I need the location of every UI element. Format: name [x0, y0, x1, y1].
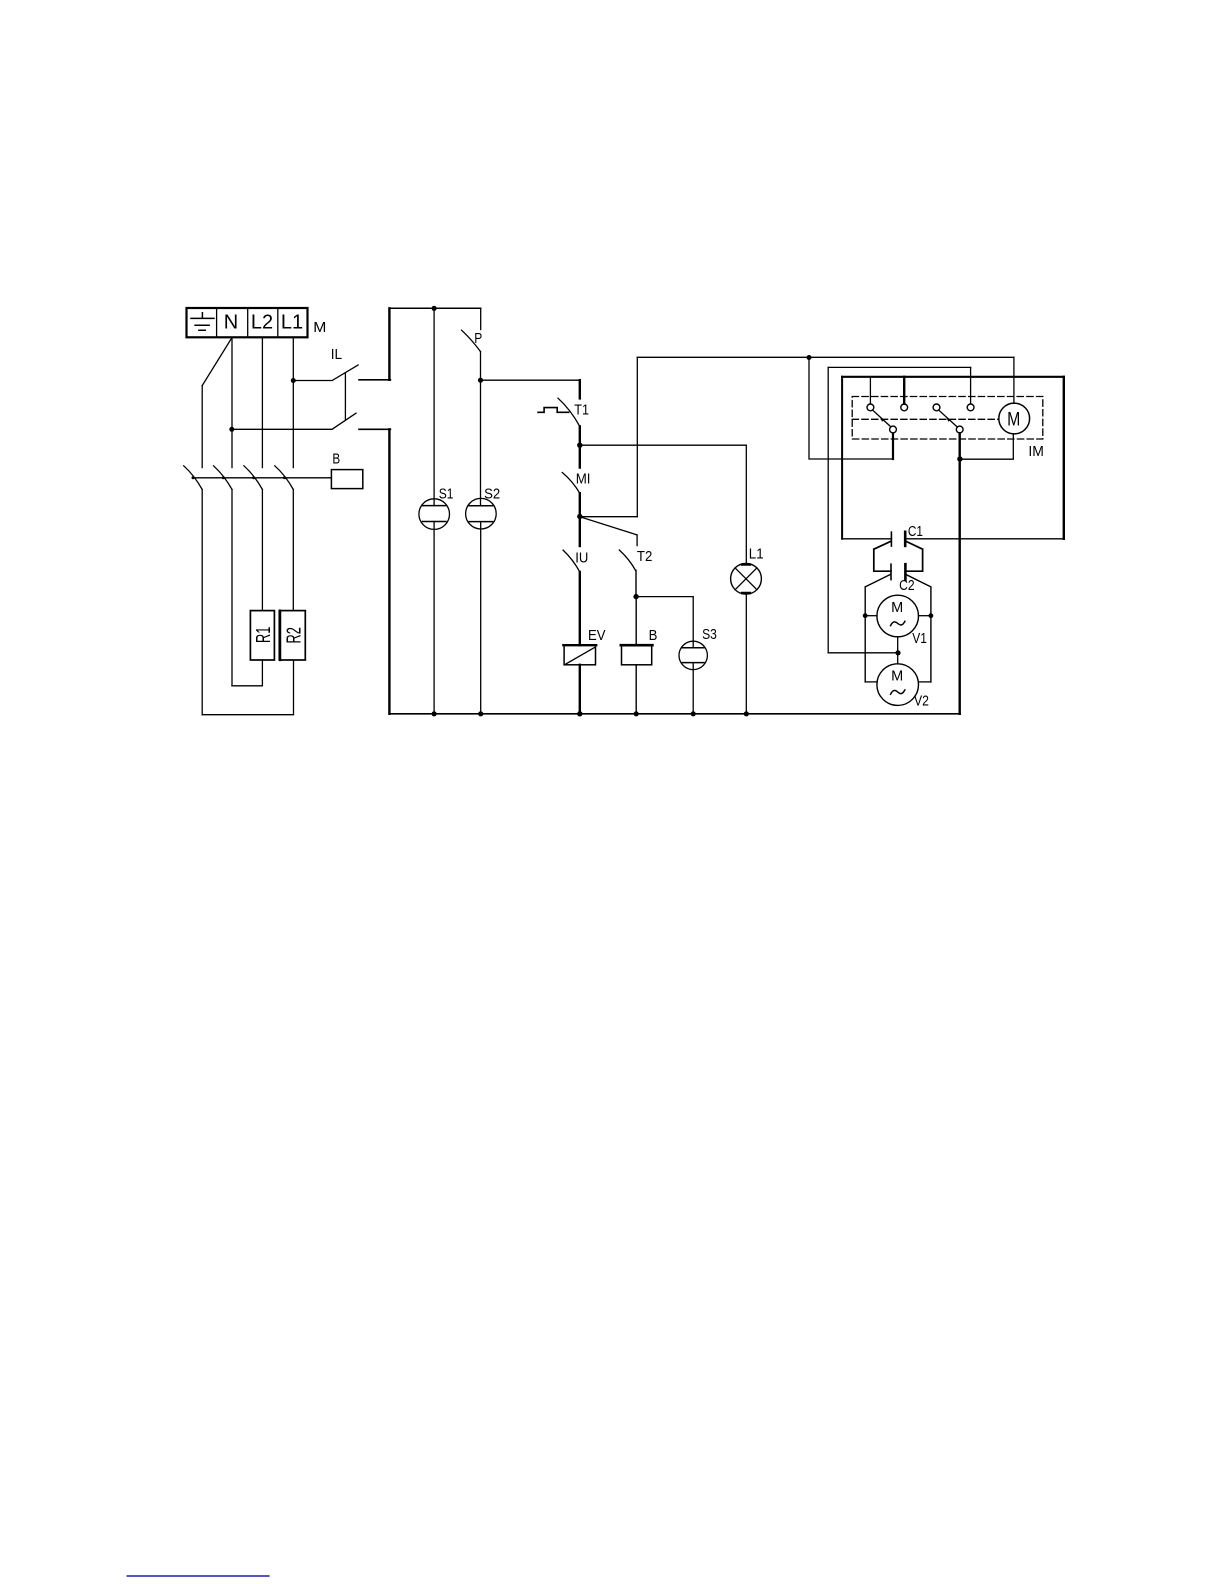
- wire contact 4 stub: [970, 367, 972, 403]
- C2 to motor loop right: [906, 575, 931, 682]
- wire main riser lower: [388, 429, 390, 714]
- motor IM circle: [999, 403, 1030, 434]
- contact T1 lower stub: [579, 426, 581, 445]
- wire junction to S3: [636, 597, 693, 648]
- svg-text:B: B: [332, 451, 340, 468]
- wire IL lower right contact: [359, 428, 390, 430]
- wire IM left drop: [841, 377, 843, 539]
- node S3 bottom: [691, 711, 696, 716]
- switch IL link: [344, 373, 346, 420]
- wire N vertical upper: [231, 337, 233, 467]
- svg-text:N: N: [224, 311, 238, 333]
- breaker blade pole 3: [244, 466, 263, 490]
- contact IU blade: [563, 550, 580, 572]
- motor IM bottom wire: [960, 434, 1013, 459]
- wire 2b riser to bus: [959, 433, 961, 714]
- switch P blade: [462, 330, 481, 351]
- wire IL upper right contact: [359, 379, 390, 381]
- ground symbol in terminal block: [191, 313, 214, 331]
- svg-text:M: M: [891, 668, 903, 684]
- svg-text:M: M: [313, 319, 326, 336]
- svg-text:R2: R2: [282, 627, 305, 643]
- valve EV diagonal: [566, 648, 595, 665]
- breaker blade pole 1: [184, 466, 203, 490]
- wire L1 vertical upper: [292, 337, 294, 467]
- wire T1 to MI: [579, 445, 581, 467]
- svg-text:V1: V1: [912, 630, 927, 647]
- wire N vertical lower: [231, 490, 233, 686]
- wire MI to junction: [579, 493, 581, 516]
- node B bottom: [634, 711, 639, 716]
- wire R2 bottom: [202, 660, 293, 715]
- wire second link horizontal: [828, 366, 970, 368]
- contact T1 blade: [558, 398, 580, 426]
- contact T1 timer hat: [538, 408, 569, 413]
- wire junction to contact 1b: [809, 358, 893, 460]
- breaker coil box B: [331, 470, 362, 489]
- wire bottom bus: [389, 713, 960, 715]
- contact circle 3: [933, 404, 940, 411]
- wire second link to motors: [828, 652, 898, 654]
- wire contact 1b stub: [892, 433, 894, 459]
- terminal block M outline: [187, 308, 308, 337]
- wire contact 1a stub: [869, 378, 871, 404]
- wire L1 vertical lower: [292, 490, 294, 611]
- selector blade 1: [873, 410, 891, 426]
- wire R1 bottom: [232, 660, 262, 686]
- node L1/IL junction: [291, 378, 296, 383]
- svg-text:S2: S2: [484, 485, 500, 502]
- switch IL lower pole: [232, 413, 356, 429]
- wire EV lower: [579, 665, 581, 714]
- wire top link to IM: [637, 356, 1014, 358]
- wire earth diagonal: [202, 338, 232, 386]
- node N/IL junction: [229, 427, 234, 432]
- wire main riser upper: [388, 308, 390, 380]
- svg-text:L1: L1: [281, 311, 303, 333]
- node V link junction: [895, 650, 900, 655]
- svg-text:MI: MI: [576, 471, 591, 488]
- contact circle 2: [901, 404, 908, 411]
- svg-text:L1: L1: [749, 546, 764, 563]
- capacitor C1 left lead: [842, 538, 891, 540]
- motor V1 circle: [877, 595, 919, 637]
- wire S1 branch lower: [433, 522, 435, 714]
- wire lamp branch vertical: [745, 445, 747, 563]
- coil B top thick edge: [621, 644, 653, 647]
- wire IU to EV: [579, 572, 581, 645]
- pressure switch S3: [679, 641, 707, 669]
- contact circle 1a: [867, 404, 874, 411]
- wire IM right drop: [1063, 377, 1065, 539]
- C1-C2 loop right: [905, 542, 922, 572]
- wire B lower: [635, 665, 637, 714]
- node IM link junction: [807, 355, 812, 360]
- node P/T1 junction: [478, 378, 483, 383]
- svg-text:B: B: [649, 627, 658, 644]
- wire top bus: [389, 307, 480, 309]
- wire L2 vertical upper: [261, 337, 263, 467]
- breaker trip dots: [192, 476, 287, 479]
- wire S3 lower: [692, 663, 694, 714]
- capacitor C1 right lead: [905, 538, 1064, 540]
- starter S2: [466, 498, 497, 529]
- svg-text:T2: T2: [637, 548, 652, 565]
- IM dashed enclosure: [852, 397, 1043, 440]
- contact circle 1b: [890, 426, 897, 433]
- wire L2 vertical lower: [261, 490, 263, 611]
- wire MI bypass vertical: [636, 357, 638, 516]
- wire MI bypass horizontal: [581, 516, 638, 518]
- node S1 top: [432, 306, 437, 311]
- resistor R1 box: [250, 611, 274, 660]
- node 2b junction: [957, 456, 962, 461]
- IM dashed link line: [852, 418, 999, 420]
- wire P branch top: [480, 308, 482, 329]
- wire earth vertical lower: [201, 490, 203, 715]
- node S1 bottom: [432, 711, 437, 716]
- wire lamp lower: [745, 595, 747, 714]
- resistor R2 left thick edge: [279, 611, 281, 660]
- lamp L1: [731, 563, 762, 594]
- blue footer line: [127, 1575, 270, 1577]
- contact T2 blade: [619, 550, 635, 570]
- contact circle 2b: [956, 426, 963, 433]
- svg-text:R1: R1: [252, 627, 275, 643]
- node T2/S3 junction: [633, 594, 638, 599]
- breaker blade pole 2: [214, 466, 233, 490]
- capacitor C2 plates: [890, 564, 892, 579]
- wire MI junction to IU: [579, 517, 581, 547]
- motor V2 circle: [877, 664, 919, 706]
- wire S2 branch lower: [480, 522, 482, 714]
- breaker trip line: [193, 477, 331, 479]
- breaker blade pole 4: [275, 466, 294, 490]
- node S2 bottom: [478, 711, 483, 716]
- wire IM thick top rail: [842, 376, 1064, 378]
- motor V1 left tap: [865, 615, 877, 617]
- wire contact 2 stub: [903, 377, 905, 404]
- svg-text:S1: S1: [439, 485, 454, 502]
- motor IM M stem: [1013, 357, 1015, 403]
- svg-text:C1: C1: [908, 523, 923, 540]
- svg-text:T1: T1: [574, 402, 589, 419]
- svg-text:V2: V2: [914, 693, 929, 710]
- contact T2 upper stub: [636, 535, 638, 546]
- valve EV box: [564, 645, 595, 665]
- motor V2 right tap: [919, 681, 931, 683]
- node EV bottom: [577, 711, 582, 716]
- switch IL upper pole: [293, 365, 358, 381]
- wire second link vertical: [827, 367, 829, 652]
- node MI junction: [577, 514, 582, 519]
- terminal block dividers: [217, 308, 278, 337]
- wire T2 to junction: [635, 570, 637, 596]
- motor V1 right tap: [919, 615, 931, 617]
- svg-text:S3: S3: [702, 626, 717, 643]
- selector blade 2: [939, 410, 957, 426]
- svg-text:IL: IL: [331, 346, 342, 363]
- resistor R2 box: [279, 611, 305, 660]
- svg-text:C2: C2: [899, 577, 915, 594]
- svg-text:IU: IU: [575, 549, 588, 566]
- wire P to S2: [480, 352, 482, 506]
- wire S1 branch upper: [433, 308, 435, 505]
- contact T1 upper stub: [579, 380, 581, 398]
- motor V2 left tap: [865, 681, 877, 683]
- contact MI blade: [562, 473, 580, 494]
- wire earth vertical upper: [201, 386, 203, 468]
- svg-text:M: M: [1007, 410, 1020, 431]
- svg-text:L2: L2: [251, 311, 273, 333]
- wire T2 takeoff diagonal: [581, 517, 637, 535]
- coil B stem: [635, 597, 637, 646]
- wire junction to T1: [481, 379, 580, 381]
- wire T1 junction to lamp branch: [580, 444, 747, 446]
- svg-text:M: M: [891, 600, 903, 616]
- coil B box: [622, 645, 652, 665]
- contact circle 4: [967, 404, 974, 411]
- C2 to motor loop left: [865, 575, 890, 682]
- wire V1-V2 link: [897, 637, 899, 664]
- node lamp bottom: [744, 711, 749, 716]
- C1-C2 loop left: [874, 542, 891, 572]
- svg-text:P: P: [474, 330, 482, 347]
- capacitor C1 plates: [890, 532, 892, 546]
- node T1/L1 junction: [577, 443, 582, 448]
- svg-text:IM: IM: [1028, 443, 1044, 460]
- valve EV top thick edge: [563, 644, 596, 646]
- svg-text:EV: EV: [588, 627, 606, 644]
- starter S1: [419, 499, 450, 530]
